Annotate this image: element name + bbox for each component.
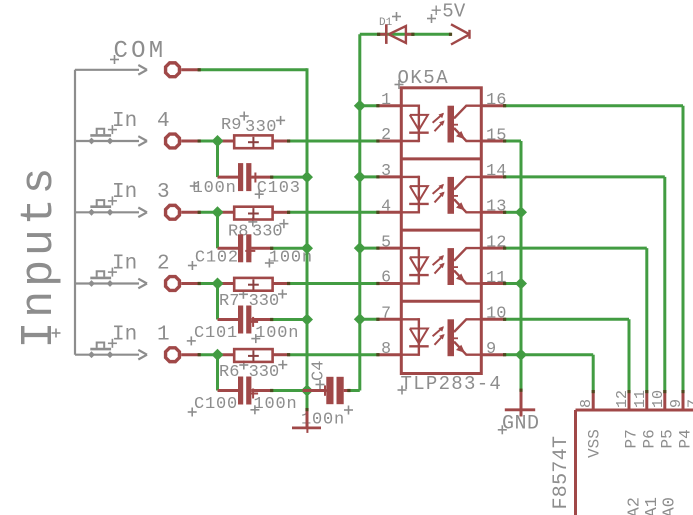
svg-text:7: 7 (686, 399, 693, 408)
svg-text:R9: R9 (221, 116, 241, 135)
svg-text:A1: A1 (643, 497, 662, 515)
svg-text:C100: C100 (194, 395, 238, 414)
svg-text:P4: P4 (677, 429, 693, 448)
svg-text:100n: 100n (254, 395, 298, 414)
svg-text:C101: C101 (194, 324, 238, 343)
svg-text:330: 330 (252, 222, 283, 241)
svg-text:Inputs: Inputs (14, 164, 65, 349)
svg-text:C102: C102 (195, 249, 239, 268)
svg-text:OK5A: OK5A (398, 67, 450, 89)
svg-text:R7: R7 (219, 292, 239, 311)
svg-text:3: 3 (157, 181, 170, 204)
svg-text:2: 2 (157, 252, 170, 275)
svg-text:A2: A2 (626, 497, 645, 515)
svg-text:C4: C4 (310, 361, 329, 381)
svg-text:R6: R6 (219, 363, 239, 382)
svg-text:100n: 100n (193, 179, 237, 198)
svg-text:P7: P7 (623, 429, 641, 448)
svg-text:F8574T: F8574T (550, 436, 573, 510)
svg-text:C103: C103 (257, 179, 301, 198)
svg-text:VSS: VSS (586, 429, 604, 458)
svg-text:4: 4 (157, 110, 170, 133)
svg-text:P5: P5 (658, 429, 676, 448)
svg-text:1: 1 (157, 324, 170, 347)
svg-text:COM: COM (114, 38, 167, 65)
svg-text:A0: A0 (661, 497, 680, 515)
svg-text:330: 330 (249, 363, 280, 382)
svg-text:TLP283-4: TLP283-4 (401, 373, 503, 395)
svg-text:P6: P6 (640, 429, 658, 448)
svg-text:330: 330 (249, 292, 280, 311)
svg-text:100n: 100n (255, 324, 299, 343)
